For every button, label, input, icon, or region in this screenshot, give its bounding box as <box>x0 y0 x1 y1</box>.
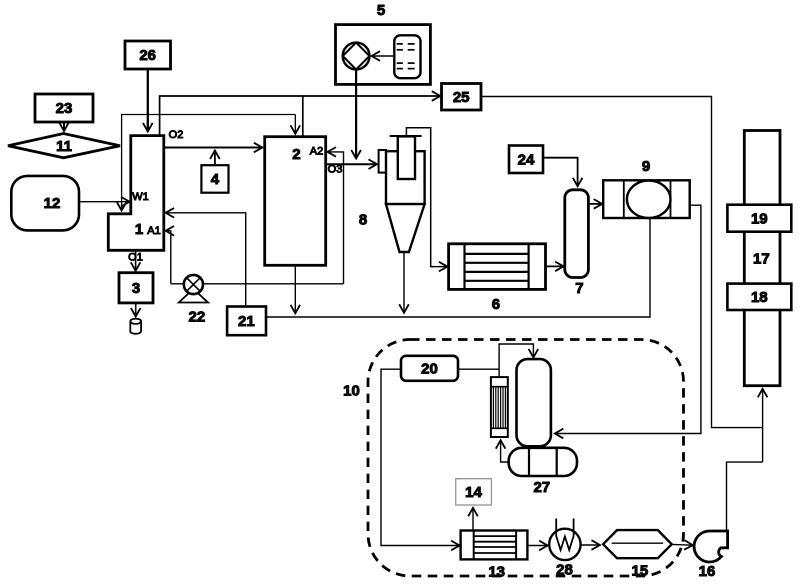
svg-text:9: 9 <box>642 158 650 175</box>
wire A2 riser into reactor 2 <box>328 152 344 284</box>
svg-text:8: 8 <box>359 212 367 229</box>
wire O2 from vessel 1 to reactor 2 <box>164 147 262 149</box>
heat exchanger 13 <box>461 531 528 581</box>
box 4 <box>201 165 228 193</box>
drum 27 <box>509 448 577 496</box>
wire 6 to column 7 <box>546 265 564 267</box>
circle of unit 5 <box>343 43 370 70</box>
unit 5 enclosure <box>336 25 431 85</box>
wire 26 to vessel 1 <box>147 69 149 132</box>
svg-text:12: 12 <box>44 195 61 212</box>
svg-text:25: 25 <box>453 89 470 106</box>
svg-text:6: 6 <box>492 296 500 313</box>
wire cyclone overhead to HX 6 <box>406 128 447 267</box>
wire 12 to vessel 1 (W1) <box>79 201 130 203</box>
wire HX 13 to box 14 <box>472 508 474 531</box>
wire bottom header from 21 to unit 9 bottom <box>266 218 650 317</box>
wire A1 loop from pump line into vessel 1 <box>166 231 171 284</box>
box 26 <box>125 41 171 69</box>
wire reactor 2 bottom drop <box>294 265 296 313</box>
svg-text:14: 14 <box>465 484 482 501</box>
pump 22 <box>179 275 208 326</box>
wire riser into tall column <box>762 389 764 462</box>
wire 28 to vessel 15 <box>581 544 600 546</box>
cylinder 12 <box>11 176 79 231</box>
wire 20 left to HX 13 <box>381 369 460 545</box>
wire pump suction line <box>171 283 344 285</box>
svg-text:7: 7 <box>575 280 583 297</box>
box 14 <box>456 479 492 505</box>
heater 28 <box>549 519 580 579</box>
wire blower outlet <box>727 462 763 530</box>
wire recycle 21 to vessel 1 <box>166 213 246 307</box>
box 3 <box>119 273 153 303</box>
svg-text:21: 21 <box>238 313 255 330</box>
wire 24 to column 7 top <box>543 158 578 187</box>
wire 3 to drum <box>135 303 137 317</box>
svg-text:28: 28 <box>556 562 573 579</box>
svg-text:23: 23 <box>56 100 73 117</box>
wire 15 to blower 16 <box>672 543 693 546</box>
svg-text:O3: O3 <box>328 164 343 176</box>
wire 23 to diamond 11 <box>63 122 65 131</box>
reactor 2 <box>265 137 326 266</box>
wire 27 to exchanger bottom <box>501 440 510 462</box>
svg-text:22: 22 <box>189 309 206 326</box>
svg-text:11: 11 <box>56 138 72 155</box>
wire 13 to heater 28 <box>527 545 547 547</box>
wire exchanger top to vessel top <box>499 344 533 377</box>
svg-text:A2: A2 <box>310 146 323 158</box>
recycle vessel <box>517 359 551 446</box>
box 18 <box>727 284 791 310</box>
svg-text:10: 10 <box>343 383 360 400</box>
wire O1 vessel 1 to box 3 <box>135 250 137 270</box>
svg-text:27: 27 <box>533 479 550 496</box>
cyclone 8 <box>359 136 425 252</box>
drum below 3 <box>130 319 141 334</box>
wire 25 to column riser <box>481 97 763 428</box>
wire canister to circle <box>372 55 395 57</box>
wire cyclone dipleg <box>403 253 405 313</box>
box 23 <box>35 94 93 122</box>
diamond in circle <box>343 43 370 70</box>
tall column 17 <box>744 131 780 386</box>
wire 7 to unit 9 <box>588 203 602 205</box>
svg-text:4: 4 <box>211 171 220 188</box>
box 19 <box>727 205 791 232</box>
wire unit 9 to recycle vessel <box>555 205 701 433</box>
wire from vessel 1 top to box 25 with branch to reactor 2 <box>160 96 303 136</box>
box 25 <box>442 84 482 111</box>
wire 20 right to exchanger riser <box>458 368 499 370</box>
svg-text:A1: A1 <box>147 225 160 237</box>
svg-text:O2: O2 <box>169 129 184 141</box>
canister in unit 5 <box>394 35 420 78</box>
svg-text:13: 13 <box>488 564 505 581</box>
blower 16 <box>694 531 728 580</box>
vessel 15 <box>603 530 672 579</box>
svg-text:18: 18 <box>751 289 768 306</box>
wire 4 up to O2 line <box>214 151 216 166</box>
diamond 11 <box>8 134 120 158</box>
svg-text:24: 24 <box>518 152 535 169</box>
unit 9 <box>603 158 690 218</box>
hatched exchanger <box>491 377 508 437</box>
wire O3 reactor 2 to cyclone 8 <box>326 163 377 165</box>
svg-text:W1: W1 <box>132 191 149 203</box>
svg-text:26: 26 <box>139 47 156 64</box>
svg-text:20: 20 <box>421 361 438 378</box>
svg-text:2: 2 <box>292 146 300 163</box>
svg-text:16: 16 <box>699 563 716 580</box>
svg-text:17: 17 <box>753 251 770 268</box>
vessel 1 <box>108 136 164 251</box>
dashed boundary 10 <box>368 340 684 577</box>
wire 11/recycle down into notch of vessel 1 <box>122 115 296 211</box>
wire to box 25 <box>303 95 441 97</box>
box 24 <box>509 146 543 174</box>
wire unit 5 down to O3 line <box>355 69 357 158</box>
svg-text:1: 1 <box>135 221 143 238</box>
box 21 <box>227 307 266 336</box>
column 7 <box>565 190 589 278</box>
svg-text:3: 3 <box>132 280 140 297</box>
svg-text:5: 5 <box>377 2 385 19</box>
wire branch arrow into reactor 2 top <box>294 115 296 134</box>
svg-text:15: 15 <box>632 563 649 580</box>
svg-text:19: 19 <box>751 211 768 228</box>
box 20 <box>401 356 458 381</box>
canister dashes <box>397 44 415 69</box>
heat exchanger 6 <box>449 244 546 313</box>
